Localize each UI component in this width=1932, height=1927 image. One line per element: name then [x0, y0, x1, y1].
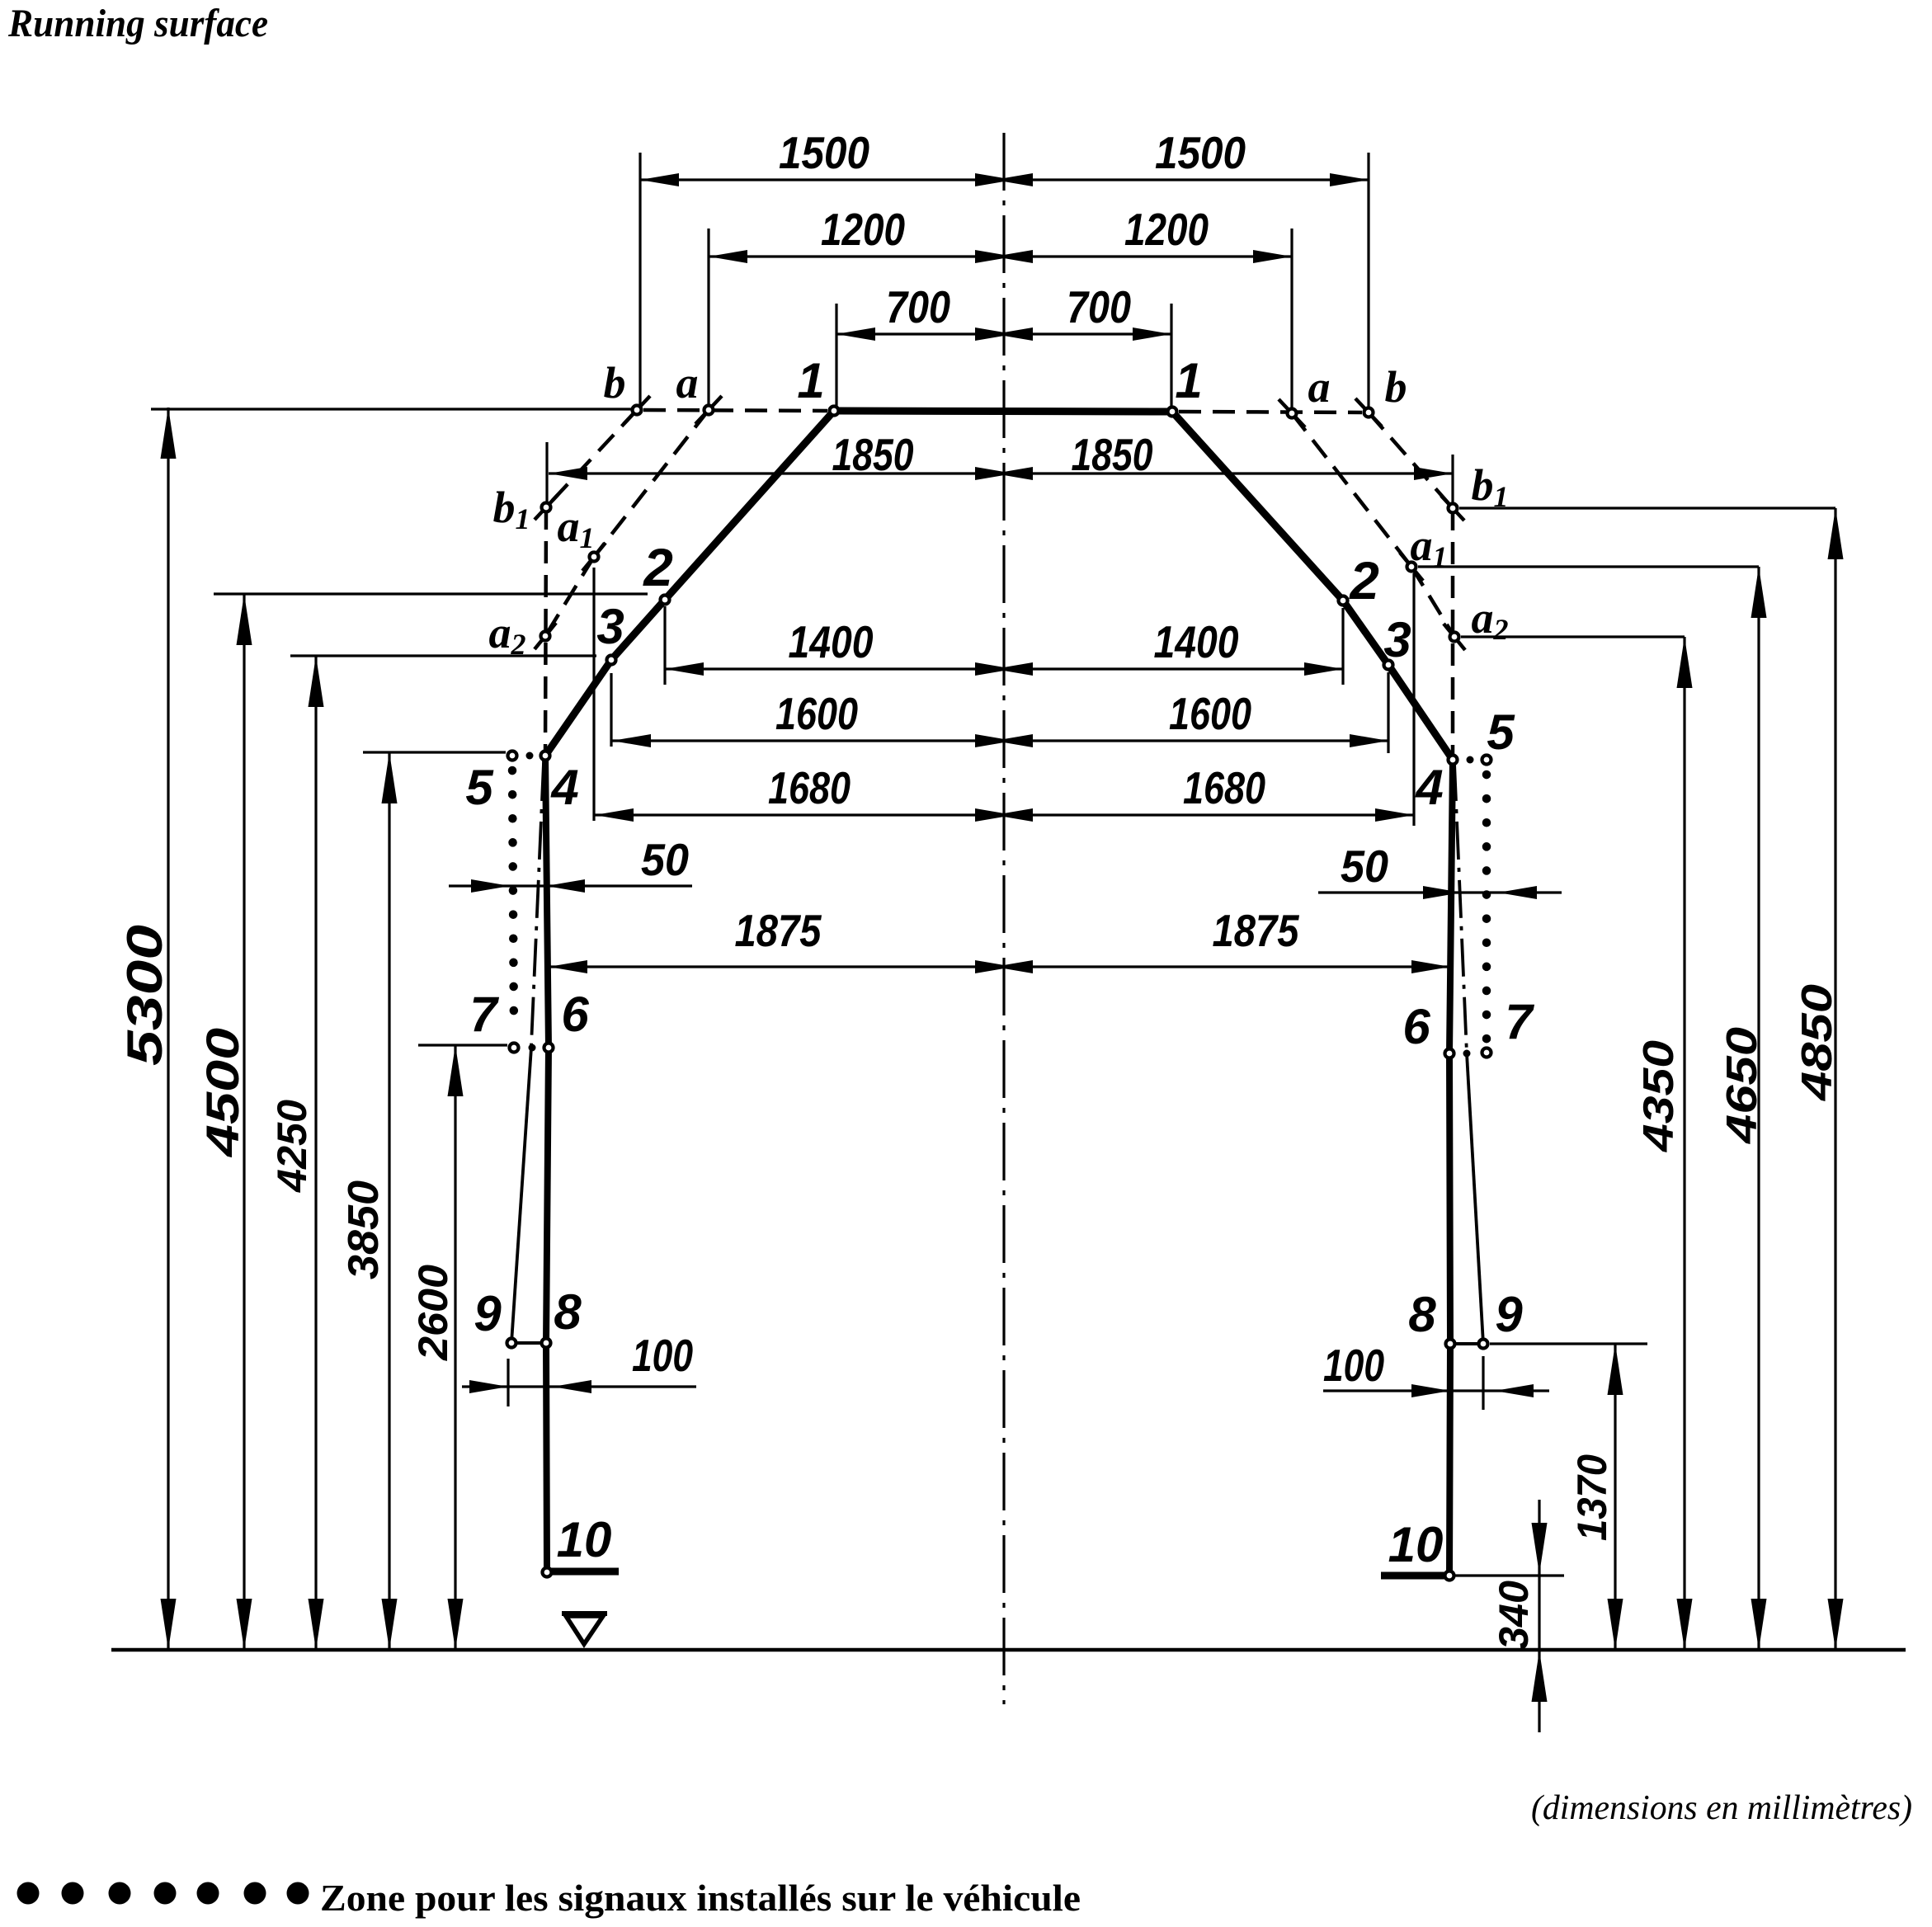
dashed diagonal a1 to a2 left: [545, 557, 594, 636]
dashed diagonal b to b1 left: [546, 410, 637, 507]
svg-text:1680: 1680: [1183, 762, 1265, 813]
vertical dimension 5300: [167, 408, 169, 1650]
svg-text:1400: 1400: [1154, 616, 1239, 667]
svg-text:8: 8: [1408, 1287, 1436, 1342]
svg-text:1500: 1500: [1155, 127, 1246, 178]
point 2 left: [661, 596, 670, 605]
svg-text:1: 1: [1175, 353, 1202, 408]
gauge profile slope 1-2-3-4 left: [545, 411, 834, 756]
level line 3850 (points 4-5): [363, 751, 506, 753]
extension line b1 left: [545, 442, 548, 503]
vertical dimension 4350: [1683, 637, 1685, 1650]
vertical dimension 2600: [454, 1045, 456, 1650]
point b right: [1364, 408, 1374, 417]
thin line 7 to 9 right: [1467, 1053, 1483, 1344]
svg-text:1600: 1600: [1169, 688, 1251, 739]
dimension 1200 right half: [1004, 255, 1292, 257]
dot between 5 and 4 left: [526, 752, 534, 760]
extension line point 2 left: [663, 606, 666, 685]
extension line point 1 right: [1170, 304, 1172, 407]
point a left: [704, 406, 714, 415]
svg-text:1: 1: [797, 353, 824, 408]
svg-text:b: b: [604, 358, 626, 408]
dimension 50 left: [449, 884, 692, 887]
svg-text:6: 6: [1402, 999, 1430, 1054]
svg-text:4: 4: [1415, 760, 1443, 815]
level line 340 (point 10 right): [1454, 1574, 1564, 1576]
dimension 1200 left half: [709, 255, 1004, 257]
extension line point 9 right: [1482, 1356, 1484, 1410]
svg-text:100: 100: [632, 1330, 693, 1381]
svg-text:7: 7: [1505, 994, 1534, 1049]
svg-text:700: 700: [1067, 281, 1131, 332]
point 6 left: [544, 1044, 554, 1053]
svg-text:4250: 4250: [269, 1100, 315, 1193]
svg-text:50: 50: [1341, 841, 1388, 892]
svg-text:a: a: [676, 358, 699, 408]
point b1 right: [1449, 504, 1458, 513]
extension line point 1 left: [835, 304, 837, 406]
point 3 right: [1384, 661, 1393, 670]
level symbol triangle: [562, 1611, 607, 1616]
dimension 700 right half: [1004, 332, 1171, 335]
tick at a2 left: [535, 623, 556, 649]
tick at a1 left: [582, 543, 606, 571]
point b left: [633, 406, 642, 415]
level line 4650 (a1 right): [1418, 565, 1759, 568]
tick at a2 right: [1444, 624, 1465, 650]
svg-text:3: 3: [1383, 612, 1411, 667]
svg-text:3850: 3850: [340, 1180, 388, 1279]
dotted signal zone line 5 to 7 left: [512, 770, 514, 1034]
svg-text:700: 700: [886, 281, 950, 332]
dimension 100 right: [1323, 1389, 1549, 1392]
point 4 left: [541, 751, 550, 761]
dot between 6 and 7 right: [1463, 1050, 1471, 1058]
dashed top line 1-a-b right: [1179, 412, 1362, 412]
extension line point 9 left: [507, 1359, 509, 1406]
tick at a1 right: [1400, 553, 1423, 581]
point 1 right: [1168, 408, 1177, 417]
vertical dimension 340: [1538, 1500, 1540, 1732]
level line 5300 (top, thin): [151, 408, 632, 410]
svg-text:5: 5: [465, 760, 494, 815]
dash-dot line 4 to 6/7 left: [531, 763, 544, 1045]
svg-text:4350: 4350: [1635, 1040, 1683, 1152]
dashed vertical b1-a2-4 left: [545, 507, 546, 756]
point 5 left: [508, 751, 517, 761]
point 7 right: [1482, 1048, 1491, 1058]
dashed diagonal a1 to a2 right: [1411, 567, 1454, 637]
dimension 1680 right half: [1004, 813, 1414, 816]
centre line of track (dash-dot): [1002, 133, 1005, 1704]
point b1 left: [542, 503, 551, 512]
svg-text:5300: 5300: [117, 925, 172, 1066]
svg-text:3: 3: [596, 599, 624, 654]
svg-text:9: 9: [1495, 1287, 1523, 1342]
dimension 1600 right half: [1004, 739, 1388, 742]
svg-text:1370: 1370: [1569, 1454, 1615, 1541]
tick at b right: [1355, 398, 1382, 426]
tick at b1 right: [1441, 496, 1464, 521]
extension line a right: [1290, 229, 1293, 408]
svg-text:2: 2: [1349, 551, 1379, 610]
level line 4500 (point 2): [214, 592, 648, 595]
svg-text:50: 50: [641, 834, 689, 885]
dashed diagonal a to a1 left: [594, 410, 709, 557]
tick at a left: [695, 396, 722, 424]
point 1 left: [830, 407, 839, 416]
point a1 left: [590, 553, 599, 562]
point a2 left: [541, 632, 550, 641]
extension line 1680 right (from a1): [1412, 573, 1415, 826]
extension line 1680 left (from a1): [592, 568, 595, 821]
point a right: [1288, 409, 1297, 418]
dimension 1680 left half: [595, 813, 1004, 816]
svg-text:1500: 1500: [779, 127, 869, 178]
vertical dimension 1370: [1614, 1344, 1616, 1650]
point 2 right: [1339, 596, 1348, 605]
svg-text:a: a: [1308, 362, 1331, 412]
dashed top line b-a-1 left: [643, 410, 827, 411]
dashed diagonal a to a1 right: [1292, 413, 1411, 567]
svg-text:2: 2: [643, 538, 673, 597]
extension line b1 right: [1451, 455, 1454, 506]
svg-text:b: b: [1385, 362, 1407, 412]
thin line 7 to 9 left: [511, 1048, 531, 1343]
dimension 700 left half: [836, 332, 1004, 335]
point 8 left: [542, 1339, 551, 1348]
svg-text:(dimensions en millimètres): (dimensions en millimètres): [1531, 1789, 1912, 1827]
level line 4250 (point 3): [290, 654, 596, 657]
gauge profile slope 1-2-3-4 right: [1172, 412, 1453, 760]
point 10 right: [1445, 1571, 1454, 1581]
dimension 1400 right half: [1004, 667, 1343, 670]
extension line a left: [707, 229, 709, 405]
svg-text:4: 4: [550, 760, 578, 815]
dotted signal zone line 5 to 7 right: [1482, 775, 1491, 1039]
vertical dimension 4650: [1757, 567, 1760, 1650]
svg-text:1600: 1600: [775, 688, 858, 739]
point a2 right: [1450, 633, 1459, 642]
extension line point 3 right: [1387, 672, 1389, 753]
svg-text:2600: 2600: [410, 1265, 456, 1361]
tick at b1 left: [535, 495, 558, 520]
svg-text:100: 100: [1323, 1340, 1384, 1391]
point a1 right: [1407, 563, 1416, 572]
point 4 right: [1449, 756, 1458, 765]
svg-text:1875: 1875: [1213, 905, 1300, 956]
svg-text:1850: 1850: [1072, 429, 1153, 480]
dimension 50 right: [1318, 891, 1562, 893]
gauge profile top line 1-1: [834, 411, 1172, 412]
dot between 4 and 5 right: [1467, 756, 1474, 764]
point 9 left: [507, 1339, 516, 1348]
svg-text:4650: 4650: [1718, 1027, 1766, 1144]
svg-text:9: 9: [474, 1286, 502, 1341]
level line 2600 (points 6-7): [418, 1044, 507, 1046]
point 5 right: [1482, 756, 1491, 765]
point 3 left: [607, 656, 616, 665]
connector 8-9 right: [1450, 1342, 1483, 1345]
level line 1370 (points 8-9 right): [1490, 1342, 1647, 1345]
svg-text:Zone pour les signaux installé: Zone pour les signaux installés sur le v…: [320, 1877, 1081, 1919]
svg-text:10: 10: [1388, 1517, 1444, 1572]
dimension 1850 right half: [1004, 472, 1453, 474]
vertical dimension 3850: [388, 752, 390, 1650]
dashed diagonal b to b1 right: [1369, 412, 1453, 508]
connector 9-8 left: [511, 1341, 546, 1345]
dash-dot line 4 to 6/7 right: [1454, 763, 1467, 1053]
extension line b right: [1367, 153, 1369, 408]
extension line point 3 left: [610, 673, 612, 747]
dimension 1400 left half: [665, 667, 1004, 670]
vertical dimension 4500: [243, 594, 245, 1650]
svg-text:Running surface: Running surface: [7, 2, 268, 45]
extension line b left: [639, 153, 641, 405]
gauge profile foot at 10 right: [1381, 1572, 1449, 1580]
svg-text:340: 340: [1491, 1581, 1537, 1650]
level line 4850 (b1 right): [1459, 506, 1835, 509]
extension line point 2 right: [1341, 608, 1344, 685]
legend dots: [17, 1882, 40, 1905]
svg-text:1875: 1875: [735, 905, 822, 956]
svg-text:1400: 1400: [789, 616, 874, 667]
svg-text:1680: 1680: [768, 762, 851, 813]
point 7 left: [510, 1044, 519, 1053]
dimension 1500 left half: [640, 178, 1004, 181]
tick at b left: [624, 396, 650, 424]
svg-text:10: 10: [557, 1512, 612, 1567]
gauge profile wall 4-6-8-10 right: [1449, 760, 1453, 1576]
svg-text:6: 6: [561, 987, 589, 1042]
vertical dimension 4850: [1834, 508, 1836, 1650]
dimension 1850 left half: [549, 472, 1004, 474]
svg-text:1200: 1200: [1124, 204, 1209, 255]
svg-text:7: 7: [469, 987, 499, 1042]
level line 4350 (a2 right): [1461, 635, 1685, 638]
tick at a right: [1279, 399, 1305, 427]
svg-text:4850: 4850: [1793, 984, 1841, 1101]
point 10 left: [543, 1568, 552, 1577]
gauge profile foot at 10 left: [547, 1568, 619, 1576]
vertical dimension 4250: [314, 656, 317, 1650]
point 9 right: [1479, 1340, 1488, 1349]
running surface line: [111, 1648, 1906, 1652]
point 8 right: [1446, 1340, 1455, 1349]
svg-text:1200: 1200: [821, 204, 905, 255]
dimension 100 left: [462, 1385, 696, 1388]
dimension 1500 right half: [1004, 178, 1369, 181]
point 6 right: [1445, 1049, 1454, 1058]
gauge profile wall 4-6-8-10 left: [545, 756, 549, 1572]
dot between 7 and 6 left: [529, 1044, 536, 1052]
svg-text:5: 5: [1487, 704, 1515, 760]
dimension 1875 left half: [549, 965, 1004, 968]
svg-text:8: 8: [554, 1284, 582, 1340]
svg-text:4500: 4500: [196, 1028, 248, 1157]
dimension 1875 right half: [1004, 965, 1450, 968]
dashed vertical b1-a2-4 right: [1451, 508, 1455, 760]
svg-text:1850: 1850: [832, 429, 914, 480]
dimension 1600 left half: [612, 739, 1004, 742]
